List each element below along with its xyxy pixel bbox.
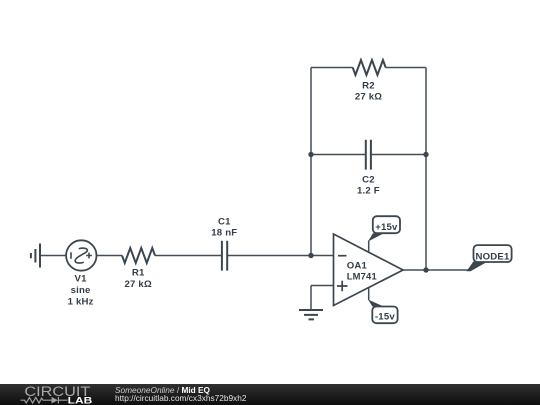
svg-text:V1: V1 [75, 274, 88, 285]
svg-text:R1: R1 [132, 268, 145, 279]
svg-text:-15v: -15v [375, 312, 395, 323]
svg-text:LAB: LAB [68, 395, 93, 405]
svg-text:OA1: OA1 [347, 260, 368, 271]
svg-text:27 kΩ: 27 kΩ [355, 92, 382, 103]
svg-text:1 kHz: 1 kHz [68, 296, 94, 307]
svg-text:NODE1: NODE1 [475, 251, 510, 262]
svg-text:sine: sine [71, 285, 91, 296]
svg-text:C2: C2 [362, 174, 375, 185]
svg-text:27 kΩ: 27 kΩ [125, 279, 152, 290]
svg-text:1.2 F: 1.2 F [357, 186, 380, 197]
svg-text:R2: R2 [362, 81, 375, 92]
svg-text:C1: C1 [218, 217, 231, 228]
svg-text:18 nF: 18 nF [211, 228, 237, 239]
svg-text:+15v: +15v [375, 222, 398, 233]
svg-text:LM741: LM741 [347, 272, 378, 283]
